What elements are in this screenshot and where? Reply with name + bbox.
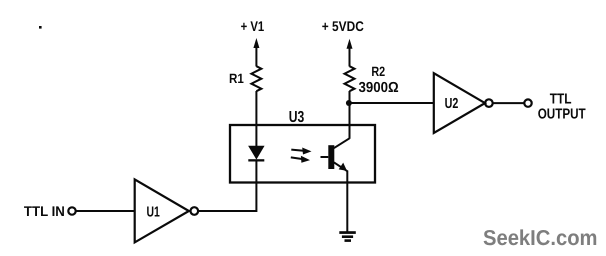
phototransistor Q1 base stub (321, 156, 329, 158)
wire node to U2 input (349, 102, 434, 104)
wire node down to collector (349, 103, 351, 139)
svg-text:R2: R2 (371, 64, 385, 79)
inverter U2 triangle (434, 73, 485, 133)
svg-text:SeekIC.com: SeekIC.com (483, 226, 598, 250)
svg-text:3900Ω: 3900Ω (359, 80, 400, 96)
inverter U2 output bubble (485, 99, 493, 107)
optocoupler U3 box (230, 125, 375, 183)
node TTL OUTPUT terminal circle (524, 99, 531, 106)
svg-text:+ V1: + V1 (241, 18, 265, 34)
power +5VDC arrow (347, 39, 353, 67)
light arrow 2 (291, 156, 310, 163)
svg-text:OUTPUT: OUTPUT (538, 107, 586, 123)
resistor R2 zigzag (345, 66, 355, 91)
svg-text:U3: U3 (289, 109, 305, 126)
phototransistor Q1 collector lead (334, 138, 350, 148)
node junction dot (346, 100, 352, 106)
power +V1 arrow (253, 38, 259, 67)
stray dot (39, 26, 42, 29)
node TTL IN terminal circle (68, 207, 75, 214)
phototransistor Q1 emitter lead (334, 162, 348, 171)
svg-text:+ 5VDC: + 5VDC (322, 18, 364, 34)
phototransistor Q1 base bar (328, 145, 334, 169)
wire TTL IN to U1 input (76, 210, 135, 212)
wire emitter down to ground (346, 171, 348, 233)
inverter U1 output bubble (191, 207, 199, 215)
inverter U1 triangle (135, 179, 189, 242)
svg-text:U1: U1 (147, 205, 160, 221)
wire R2 bottom to node (349, 91, 351, 103)
LED anode wire from R1 (255, 91, 257, 148)
wire U2 output to terminal (492, 102, 524, 104)
light arrow 1 (291, 148, 311, 155)
LED triangle (249, 146, 264, 158)
svg-text:U2: U2 (445, 96, 459, 112)
phototransistor Q1 emitter arrow (339, 163, 347, 171)
svg-text:TTL: TTL (550, 92, 572, 108)
resistor R1 zigzag (251, 66, 261, 91)
ground symbol (339, 231, 356, 242)
svg-text:R1: R1 (229, 71, 244, 86)
wire U1 output to LED branch (198, 161, 256, 211)
LED cathode bar (248, 159, 264, 161)
svg-text:TTL IN: TTL IN (24, 203, 65, 219)
